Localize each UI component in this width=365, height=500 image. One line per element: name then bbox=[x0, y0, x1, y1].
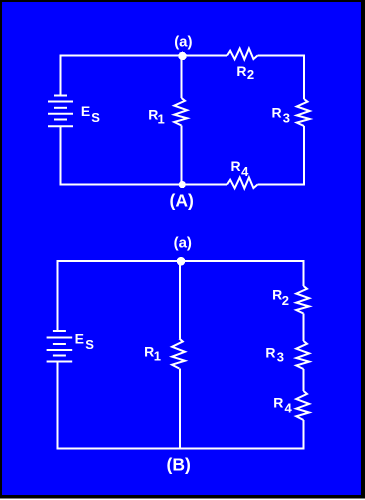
battery ES (figure B) bbox=[47, 331, 73, 362]
svg-text:2: 2 bbox=[282, 293, 289, 308]
svg-text:(a): (a) bbox=[174, 33, 192, 50]
label R2 figure B bbox=[272, 287, 289, 309]
label R1 figure A bbox=[148, 106, 164, 126]
svg-text:R: R bbox=[265, 344, 275, 360]
wire: figure A right branch lower (R3 to bottom corner) bbox=[303, 126, 305, 185]
wire: figure B right branch (R2 to R3) bbox=[303, 314, 305, 342]
svg-text:R: R bbox=[273, 395, 283, 411]
svg-text:2: 2 bbox=[247, 67, 254, 82]
label R4 figure B bbox=[273, 395, 292, 416]
wire: figure B middle branch upper (node a to R1) bbox=[179, 261, 181, 339]
wire: figure B bottom segment (left corner to middle) bbox=[57, 448, 181, 450]
wire: figure A top segment (node a to R2) bbox=[182, 55, 228, 57]
wire: figure A right branch upper (top corner to R3) bbox=[303, 55, 305, 100]
svg-text:R: R bbox=[231, 158, 241, 174]
svg-text:S: S bbox=[85, 337, 94, 352]
wire: figure B middle branch lower (R1 to bottom wire) bbox=[179, 369, 181, 449]
wire: figure B right branch (R4 to bottom corner) bbox=[303, 420, 305, 450]
battery A long plate 3 bbox=[48, 125, 73, 127]
wire: figure A bottom segment (R4 to right corner) bbox=[258, 184, 306, 186]
wire: figure A left branch upper (corner down to battery +) bbox=[60, 55, 62, 97]
battery B long plate 3 bbox=[47, 361, 73, 363]
resistor R2 (figure A, horizontal zigzag) bbox=[227, 49, 258, 60]
resistor R3 (figure B, vertical zigzag) bbox=[296, 341, 309, 369]
wire: figure A left branch lower (battery - down to bottom corner) bbox=[60, 126, 62, 186]
wire: figure B left branch lower (battery - to bottom corner) bbox=[57, 362, 59, 450]
svg-text:1: 1 bbox=[158, 111, 165, 126]
svg-text:3: 3 bbox=[277, 350, 284, 365]
svg-text:(a): (a) bbox=[174, 235, 192, 252]
battery A long plate 1 bbox=[48, 101, 73, 103]
resistor R2 (figure B, vertical zigzag) bbox=[296, 286, 309, 314]
wire: figure A top segment (R2 to right corner) bbox=[258, 55, 306, 57]
battery A short plate 1 bbox=[54, 95, 67, 97]
svg-text:S: S bbox=[91, 110, 100, 125]
battery A short plate 2 bbox=[54, 107, 67, 109]
wire: figure A middle branch lower (R1 to node A dot) bbox=[181, 126, 183, 185]
wire: figure B top segment (node a to right corner) bbox=[180, 260, 305, 262]
label R1 figure B bbox=[144, 343, 161, 363]
resistor R1 (figure B, vertical zigzag) bbox=[172, 339, 185, 369]
resistor R4 (figure B, vertical zigzag) bbox=[296, 391, 309, 420]
label R3 figure A bbox=[272, 104, 291, 125]
svg-text:R: R bbox=[144, 343, 154, 359]
node A junction dot (figure A bottom) bbox=[179, 181, 186, 188]
wire: figure B right branch (R3 to R4) bbox=[303, 369, 305, 391]
battery B short plate 2 bbox=[53, 343, 66, 345]
battery A long plate 2 bbox=[48, 113, 73, 115]
wire: figure B left branch upper (corner to battery +) bbox=[57, 260, 59, 331]
label ES figure B bbox=[75, 331, 95, 352]
svg-text:(B): (B) bbox=[167, 455, 191, 475]
battery B short plate 1 bbox=[53, 330, 66, 332]
label ES figure A bbox=[81, 103, 100, 125]
battery A short plate 3 bbox=[54, 119, 67, 121]
battery B long plate 2 bbox=[47, 349, 73, 351]
svg-text:(A): (A) bbox=[170, 190, 194, 210]
wire: figure A top-left segment (node a to left corner) bbox=[61, 55, 182, 57]
label R3 figure B bbox=[265, 344, 284, 364]
wire: figure B bottom segment (middle to right corner) bbox=[180, 448, 305, 450]
wire: figure A bottom segment (node A dot to R4) bbox=[182, 184, 228, 186]
resistor R1 (figure A, vertical zigzag) bbox=[174, 98, 187, 126]
battery B short plate 3 bbox=[53, 355, 66, 357]
svg-text:3: 3 bbox=[283, 110, 290, 125]
label R2 figure A bbox=[236, 63, 254, 82]
node a junction dot (figure B) bbox=[177, 257, 186, 266]
wire: figure A bottom segment (left corner to node A dot) bbox=[60, 184, 182, 186]
wire: figure A middle branch upper (node a to R1) bbox=[181, 56, 183, 99]
svg-text:R: R bbox=[236, 63, 246, 79]
wire: figure B right branch (top corner to R2) bbox=[303, 260, 305, 286]
svg-text:4: 4 bbox=[241, 164, 249, 179]
wire: figure B top segment (left corner to node a) bbox=[57, 260, 181, 262]
battery ES (figure A) bbox=[48, 96, 73, 127]
svg-text:E: E bbox=[75, 331, 84, 347]
svg-text:1: 1 bbox=[154, 348, 161, 363]
svg-text:R: R bbox=[272, 104, 282, 120]
resistor R4 (figure A, horizontal zigzag) bbox=[227, 178, 258, 189]
node a junction dot (figure A) bbox=[178, 52, 187, 61]
svg-text:4: 4 bbox=[285, 400, 293, 415]
svg-text:E: E bbox=[81, 103, 90, 119]
battery B long plate 1 bbox=[47, 337, 73, 339]
resistor R3 (figure A, vertical zigzag) bbox=[297, 99, 310, 126]
label R4 figure A bbox=[231, 158, 250, 179]
